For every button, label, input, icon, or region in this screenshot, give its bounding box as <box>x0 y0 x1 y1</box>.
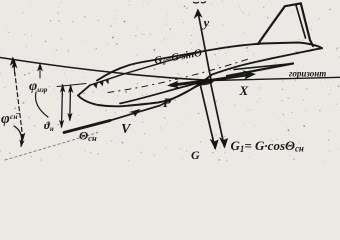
svg-text:X: X <box>239 83 249 98</box>
svg-text:φ: φ <box>1 111 10 127</box>
svg-text:горизонт: горизонт <box>289 69 326 79</box>
svg-text:G: G <box>191 148 200 162</box>
svg-text:P: P <box>163 95 172 110</box>
svg-text:y: y <box>202 15 210 30</box>
